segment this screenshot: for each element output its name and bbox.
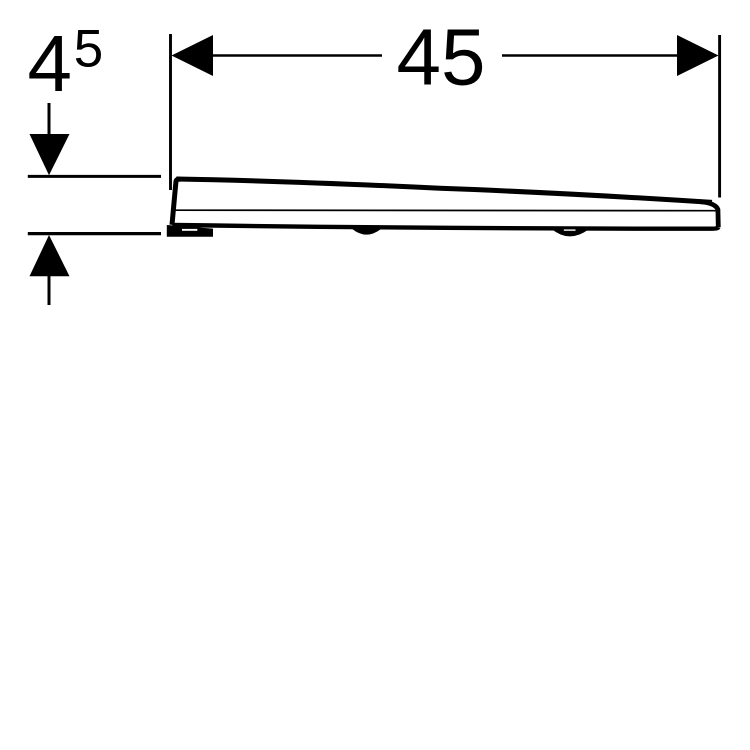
width extension line right — [718, 35, 721, 198]
seat front right edge — [700, 202, 718, 227]
seat silhouette fill — [172, 179, 717, 228]
height arrowhead down — [30, 134, 70, 175]
height arrow down shaft — [48, 103, 51, 140]
width dimension line right segment — [502, 54, 678, 57]
svg-text:45: 45 — [397, 13, 486, 102]
height extension line bottom — [28, 232, 161, 235]
height arrowhead up — [30, 235, 70, 276]
hinge foot slit — [182, 229, 197, 231]
bumper left — [352, 228, 381, 235]
hinge foot left — [167, 225, 213, 237]
seat bottom edge — [172, 225, 718, 229]
width arrowhead left — [172, 35, 214, 76]
bumper right slit — [564, 229, 576, 230]
width dimension line left segment — [212, 54, 382, 57]
seat seam line — [173, 209, 716, 212]
height extension line top — [28, 175, 161, 178]
width extension line left — [169, 34, 172, 190]
svg-text:4: 4 — [28, 19, 73, 108]
seat hinge left edge — [172, 179, 181, 225]
svg-text:5: 5 — [74, 20, 103, 79]
bumper right — [552, 228, 589, 237]
height arrow up shaft — [48, 271, 51, 305]
width arrowhead right — [677, 35, 719, 76]
seat lid top edge — [176, 179, 712, 202]
